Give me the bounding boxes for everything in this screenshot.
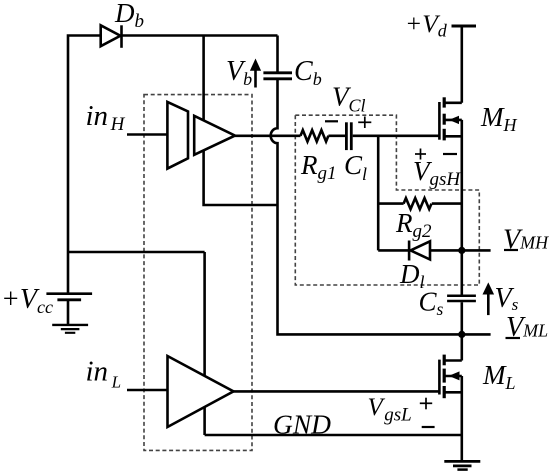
wire Cl to MH gate <box>353 135 440 138</box>
buffer U1 output stage <box>194 116 235 155</box>
node VMH junction dot <box>458 247 465 254</box>
battery +Vcc <box>46 292 92 295</box>
underline of VMH <box>504 249 518 251</box>
wire GND rail <box>205 434 462 437</box>
wire top from diode cathode to Cb corner <box>122 34 278 37</box>
ground (battery) <box>52 324 88 326</box>
wire Rg2 to MH source line <box>432 202 462 205</box>
wire +Vd bar and drain lead <box>452 25 477 28</box>
minus sign of VgsL <box>422 426 435 428</box>
wire junction down to Rg2/Dl <box>377 136 380 251</box>
ground (power) <box>444 460 480 463</box>
plus sign of VgsH <box>415 153 426 155</box>
wire inH input <box>127 133 167 136</box>
dashed driver box <box>144 95 252 451</box>
diode Dl <box>408 241 411 261</box>
resistor Rg2 <box>404 198 432 209</box>
minus sign of VCl <box>325 120 338 122</box>
minus sign of VgsH <box>443 153 457 155</box>
capacitor Cs <box>447 295 476 298</box>
wire to Dl <box>378 249 409 252</box>
capacitor Cb <box>276 36 279 73</box>
capacitor Cl <box>345 122 348 150</box>
node VML junction dot <box>458 331 465 338</box>
wire gate drive low <box>234 390 440 393</box>
underline of VML <box>506 337 521 339</box>
wire inL buffer supply vertical <box>203 252 206 435</box>
plus sign of VgsL <box>420 402 432 404</box>
wire buffer supply vertical and return to node <box>204 36 278 206</box>
arrow Vs <box>487 293 490 315</box>
wire gate drive high <box>235 135 301 138</box>
plus sign of VCl <box>358 121 371 123</box>
transistor MH <box>444 102 462 105</box>
buffer U2 <box>168 356 234 427</box>
svg-text:GND: GND <box>273 410 332 440</box>
wire Cb bottom down with hop over gate wire, to VML rail <box>271 80 491 334</box>
buffer U1 input stage <box>167 102 188 169</box>
wire ML source to ground <box>460 376 463 461</box>
wire Rg1 to Cl <box>328 135 345 138</box>
resistor Rg1 <box>301 130 329 141</box>
wire Dl to VMH node <box>430 249 491 252</box>
wire to Rg2 <box>378 202 403 205</box>
transistor ML <box>460 334 463 360</box>
wire MH source down to Cs <box>460 120 463 295</box>
wire +Vcc horizontal <box>68 251 205 254</box>
dashed gate-network box <box>295 115 479 285</box>
wire inL input <box>127 389 168 392</box>
wire left rail and top wire to diode anode <box>68 36 101 294</box>
diode Db <box>101 25 121 46</box>
arrow Vb <box>254 68 257 88</box>
wire Cs bottom to VML rail <box>460 302 463 334</box>
